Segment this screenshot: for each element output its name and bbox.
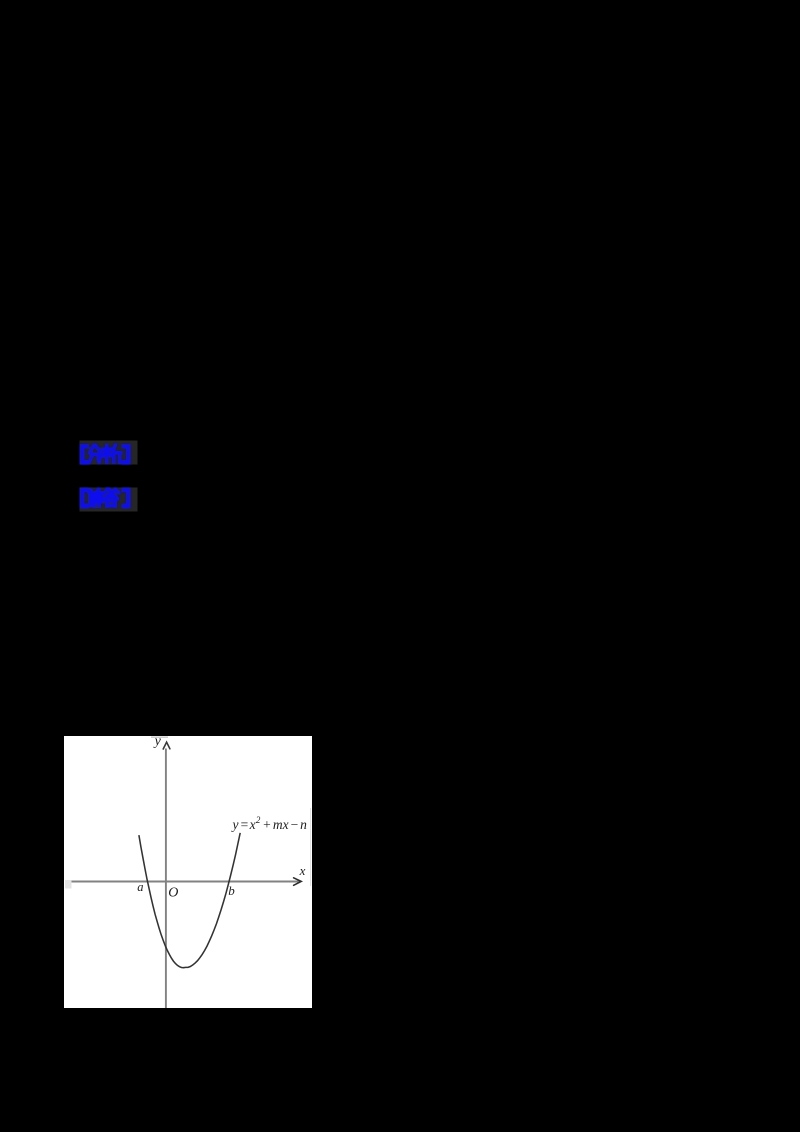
svg-text:y=x2+mx−n: y=x2+mx−n	[231, 815, 308, 832]
char xi	[103, 445, 121, 462]
x-axis	[72, 881, 301, 883]
bracket right	[124, 490, 128, 506]
y-axis	[165, 749, 167, 1009]
faint gray underline artifact at top, under box edge	[151, 737, 168, 738]
char da	[104, 489, 118, 506]
svg-text:y: y	[153, 736, 162, 749]
svg-text:a: a	[137, 880, 143, 894]
white graph panel	[64, 736, 312, 1008]
svg-text:O: O	[168, 885, 178, 900]
bracket right	[124, 446, 128, 462]
faint vertical artifact near right edge	[309, 808, 312, 886]
svg-text:b: b	[228, 883, 235, 898]
small light-gray square artifact at left edge on axis level	[65, 880, 72, 889]
label block 1: blue highlighted tag	[78, 439, 140, 466]
bracket left	[82, 490, 86, 506]
bracket left	[82, 446, 86, 462]
svg-text:x: x	[299, 863, 306, 878]
char jie	[89, 489, 102, 506]
y-axis arrowhead	[163, 742, 170, 749]
x-axis arrowhead	[294, 878, 302, 886]
label block 2: blue highlighted tag	[78, 486, 140, 513]
parabola curve	[139, 833, 240, 968]
char fen	[89, 446, 100, 463]
